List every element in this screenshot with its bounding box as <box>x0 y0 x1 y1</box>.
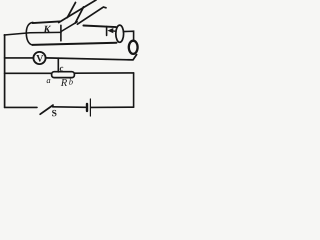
voltmeter right lead to terminal knob <box>46 55 137 60</box>
wire bottom rail right <box>91 106 134 108</box>
switch K base top edge left <box>33 21 60 23</box>
label S <box>52 110 56 116</box>
rheostat right lead <box>74 72 133 74</box>
switch right contact post <box>106 27 108 36</box>
blade handle slash 1 <box>67 3 75 18</box>
switch K base bottom edge <box>32 43 116 45</box>
switch right clip arrow <box>113 30 116 32</box>
battery positive long plate <box>89 99 91 116</box>
wire left rail <box>4 35 6 108</box>
battery negative short plate <box>86 104 88 111</box>
switch blade rod lower line <box>59 0 96 23</box>
wire right rail <box>133 73 135 107</box>
switch K base top edge right <box>83 26 116 28</box>
wire base right end to terminal knob <box>124 31 134 41</box>
label K <box>43 26 51 33</box>
switch blade rod upper line <box>77 7 106 24</box>
label b <box>69 79 73 85</box>
blade handle slash 2 <box>75 7 83 23</box>
switch right clip arrowhead <box>107 28 113 33</box>
rheostat slider tap wire <box>57 58 59 72</box>
voltmeter circle <box>33 52 45 64</box>
label R <box>61 79 67 86</box>
voltmeter left lead <box>5 57 34 59</box>
label V <box>36 55 43 62</box>
wire top-left to switch base <box>4 32 61 35</box>
blade inner line <box>61 22 77 32</box>
switch K base right end ellipse <box>116 25 124 42</box>
label c <box>60 67 64 71</box>
switch S blade <box>40 105 53 114</box>
switch K base left rounded end <box>26 22 33 45</box>
terminal knob <box>129 41 138 54</box>
rheostat body R <box>52 72 75 78</box>
switch left contact post <box>60 25 62 41</box>
label a <box>47 79 51 83</box>
wire bottom rail mid <box>53 106 86 109</box>
wire bottom rail left <box>5 106 37 108</box>
rheostat left lead <box>5 72 52 74</box>
